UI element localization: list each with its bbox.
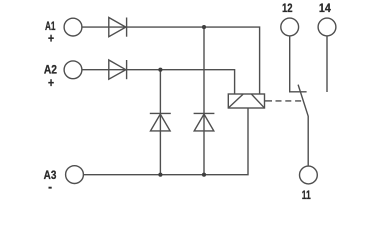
svg-text:+: + <box>48 76 54 90</box>
svg-text:A2: A2 <box>44 64 57 77</box>
svg-text:14: 14 <box>319 3 331 16</box>
svg-text:12: 12 <box>282 2 293 15</box>
svg-text:-: - <box>48 180 52 195</box>
svg-text:+: + <box>48 32 54 46</box>
svg-text:11: 11 <box>302 189 311 203</box>
